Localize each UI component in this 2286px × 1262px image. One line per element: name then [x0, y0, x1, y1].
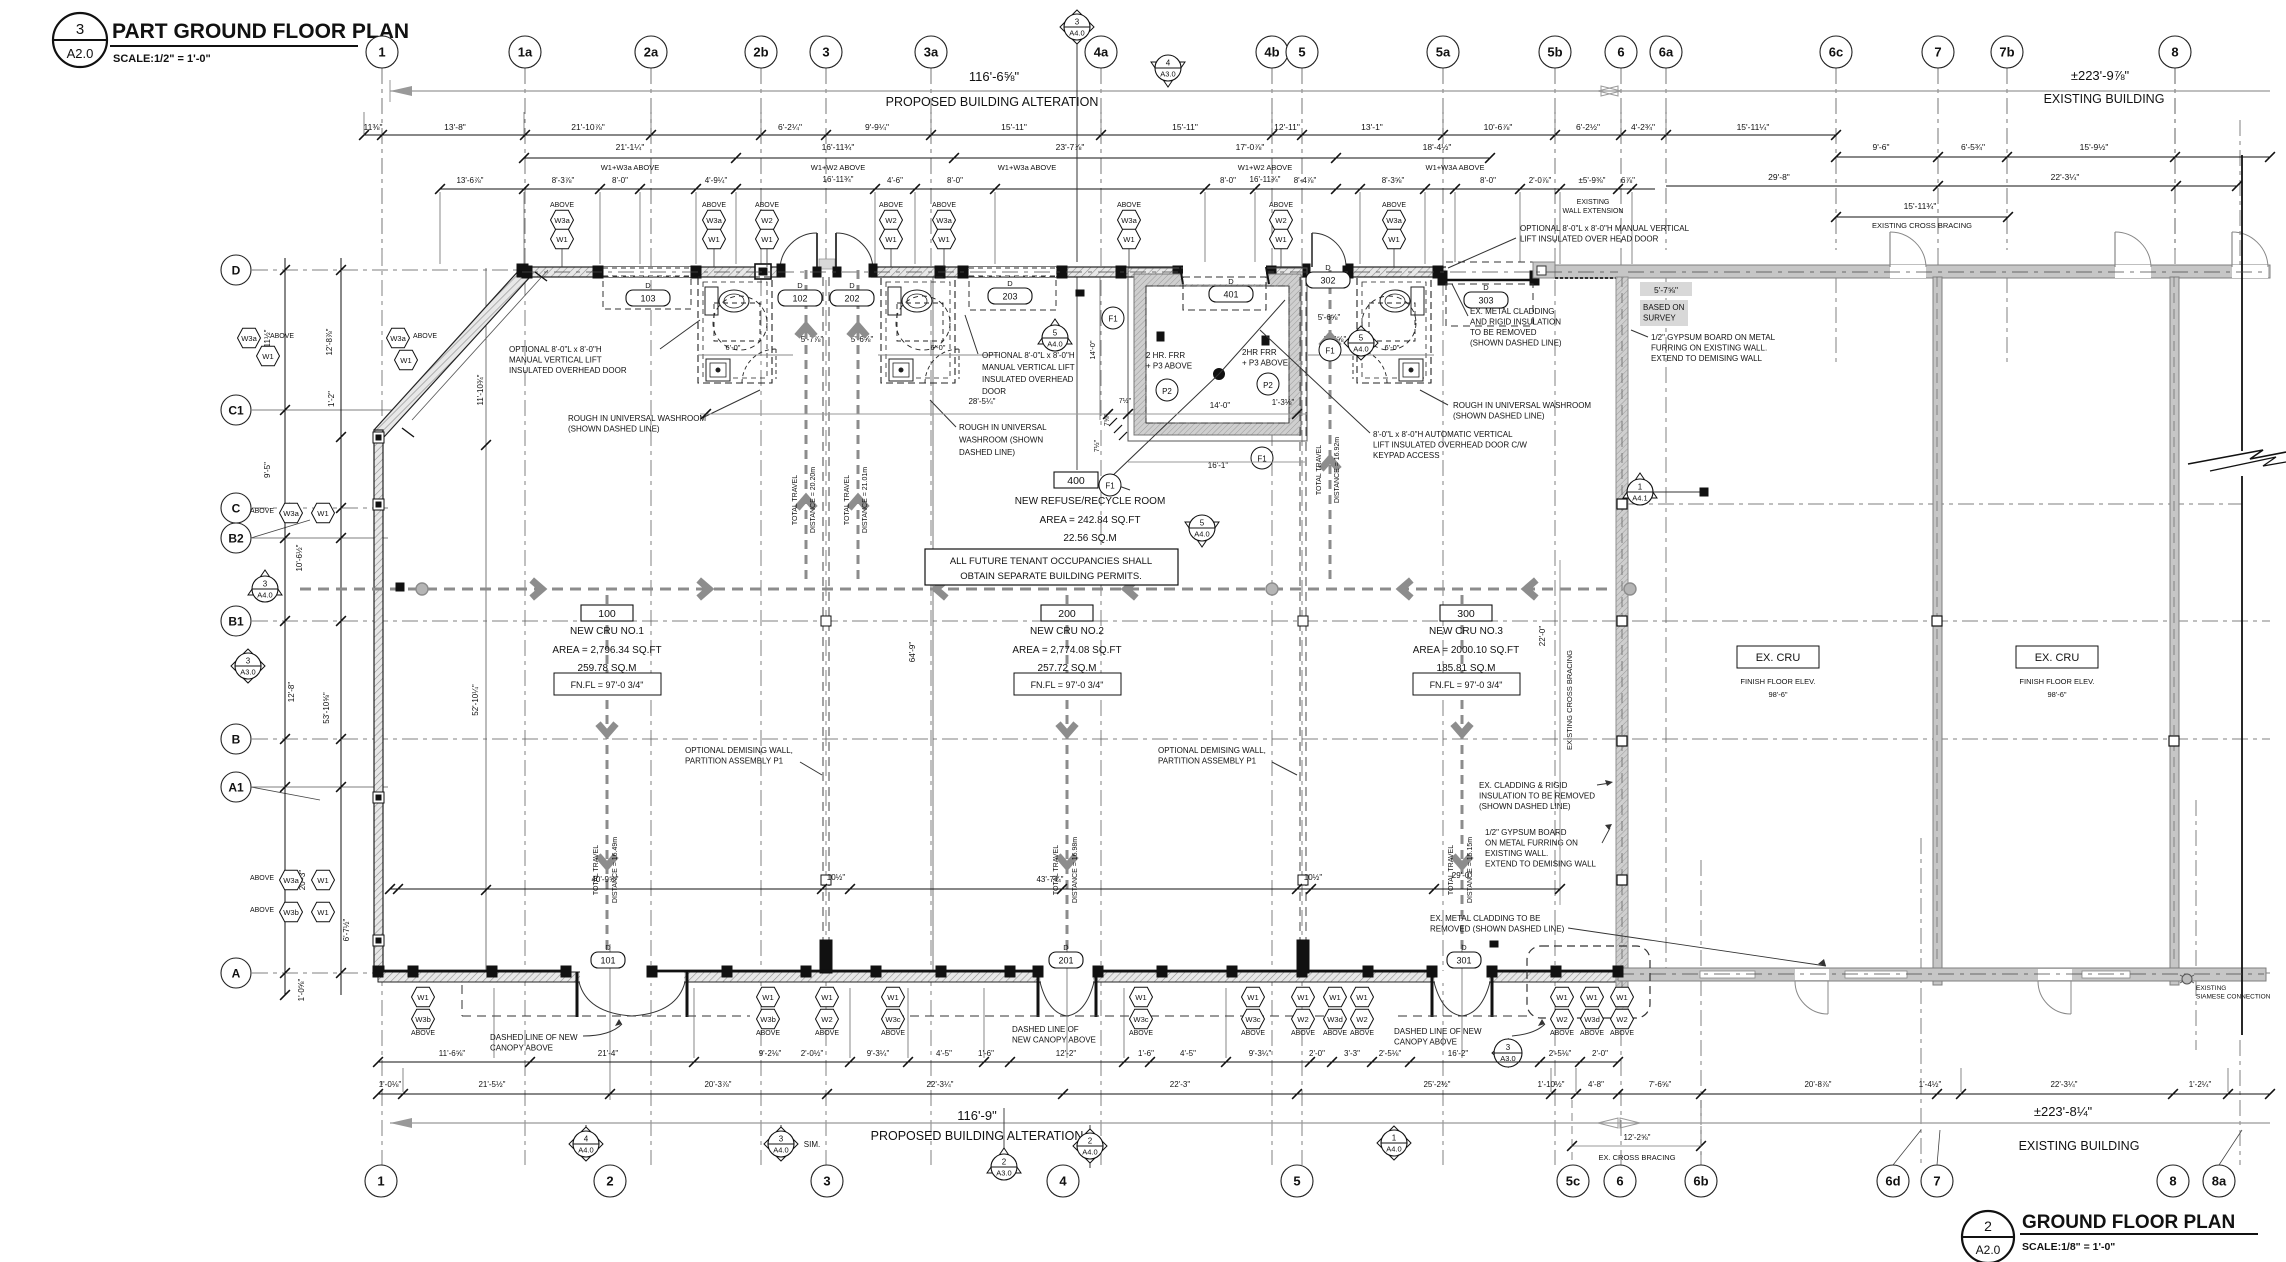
bottom hexagon tag stacks [412, 987, 435, 1006]
svg-text:ABOVE: ABOVE [413, 333, 437, 340]
svg-text:W1: W1 [887, 993, 898, 1002]
svg-text:1'-2¼": 1'-2¼" [2189, 1080, 2212, 1089]
room label 100 NEW CRU NO.1 [581, 605, 633, 621]
svg-text:W1: W1 [708, 235, 719, 244]
svg-text:1'-3⅛": 1'-3⅛" [1272, 398, 1295, 407]
svg-text:22.56 SQ.M: 22.56 SQ.M [1063, 533, 1116, 544]
svg-text:A4.0: A4.0 [773, 1146, 788, 1155]
svg-text:OPTIONAL 8'-0"L x 8'-0"H: OPTIONAL 8'-0"L x 8'-0"H [982, 351, 1075, 360]
svg-text:TOTAL TRAVEL: TOTAL TRAVEL [593, 845, 600, 895]
universal washroom CRU1 (dashed rough-in) [698, 277, 772, 383]
svg-text:6: 6 [1616, 1174, 1623, 1189]
bottom storefront door gaps [580, 971, 684, 983]
svg-text:3: 3 [822, 45, 829, 60]
svg-text:29'-8": 29'-8" [1768, 172, 1790, 182]
svg-text:2'-0½": 2'-0½" [801, 1049, 824, 1058]
svg-text:SURVEY: SURVEY [1643, 314, 1676, 323]
svg-text:A3.0: A3.0 [1160, 70, 1175, 79]
horizontal grid lines D C1 C B2 B1 B A1 A [252, 269, 2270, 271]
svg-text:NEW CRU NO.3: NEW CRU NO.3 [1429, 626, 1503, 637]
door tag 102 [778, 290, 822, 306]
demising wall intersection squares [821, 875, 831, 885]
svg-text:W2: W2 [761, 216, 772, 225]
svg-text:116'-9": 116'-9" [957, 1108, 997, 1123]
svg-text:ABOVE: ABOVE [702, 202, 726, 209]
svg-text:NEW CANOPY ABOVE: NEW CANOPY ABOVE [1012, 1036, 1096, 1045]
svg-text:AREA = 2,796.34 SQ.FT: AREA = 2,796.34 SQ.FT [552, 645, 661, 656]
grid D centerline over wall bands [522, 271, 1618, 273]
svg-text:W1+W3A ABOVE: W1+W3A ABOVE [1426, 163, 1485, 172]
svg-text:203: 203 [1002, 292, 1017, 302]
entry door 301 (double leaves + arcs) [1431, 972, 1434, 1017]
svg-text:OPTIONAL 8'-0"L x 8'-0"H: OPTIONAL 8'-0"L x 8'-0"H [509, 345, 602, 354]
svg-text:W2: W2 [1356, 1015, 1367, 1024]
svg-text:6'-5¾": 6'-5¾" [1961, 142, 1985, 152]
svg-text:(SHOWN DASHED LINE): (SHOWN DASHED LINE) [568, 425, 660, 434]
bottom grid bubbles [365, 1165, 397, 1197]
svg-text:ABOVE: ABOVE [250, 508, 274, 515]
svg-text:DISTANCE = 16.92m: DISTANCE = 16.92m [1334, 437, 1341, 503]
chamfer diagonal dimension 11'-10 3/4 [412, 270, 548, 420]
svg-text:5b: 5b [1547, 45, 1562, 60]
svg-text:2'-0": 2'-0" [1592, 1049, 1608, 1058]
svg-text:7½": 7½" [1093, 439, 1101, 452]
svg-text:4'-8": 4'-8" [1588, 1080, 1604, 1089]
overall top dimension line 116'-6 5/8 PROPOSED BUILDING ALTERATION [390, 90, 2270, 92]
svg-text:A3.0: A3.0 [996, 1169, 1011, 1178]
svg-text:SCALE:1/8" = 1'-0": SCALE:1/8" = 1'-0" [2022, 1241, 2115, 1253]
svg-text:EX. CROSS BRACING: EX. CROSS BRACING [1598, 1153, 1675, 1162]
svg-text:W1: W1 [417, 993, 428, 1002]
svg-text:22'-0": 22'-0" [1538, 626, 1547, 647]
svg-text:DASHED LINE OF NEW: DASHED LINE OF NEW [1394, 1027, 1482, 1036]
svg-text:SCALE:1/2" = 1'-0": SCALE:1/2" = 1'-0" [113, 53, 211, 65]
svg-text:14'-0": 14'-0" [1210, 401, 1231, 410]
svg-text:6'-0": 6'-0" [931, 343, 946, 352]
svg-text:EXTEND TO DEMISING WALL: EXTEND TO DEMISING WALL [1485, 860, 1597, 869]
svg-text:A4.0: A4.0 [257, 591, 272, 600]
svg-text:W1: W1 [317, 908, 328, 917]
svg-text:15'-11¼": 15'-11¼" [1737, 122, 1770, 132]
vertical grid centerlines [381, 68, 383, 250]
svg-text:DASHED LINE): DASHED LINE) [959, 448, 1015, 457]
svg-text:OBTAIN SEPARATE BUILDING PERMI: OBTAIN SEPARATE BUILDING PERMITS. [960, 571, 1142, 582]
vestibule entry doors D/102 D/202 at grid 3 [781, 266, 871, 278]
svg-text:D: D [797, 281, 803, 290]
svg-text:EXISTING CROSS BRACING: EXISTING CROSS BRACING [1872, 221, 1972, 230]
door tag 103 [626, 290, 670, 306]
svg-text:F1: F1 [1325, 347, 1335, 356]
EX. CRU label left [1737, 646, 1819, 668]
svg-text:2'-0⅞": 2'-0⅞" [1529, 176, 1552, 185]
horizontal exit path line at y=589 [300, 588, 1610, 591]
travel line CRU3 upper [1329, 270, 1332, 585]
svg-text:C: C [232, 501, 241, 515]
existing top wall grey band grid 6 to 8a [1555, 265, 2270, 278]
washroom dim 6'-0 CRU1 [698, 354, 793, 356]
svg-text:W3b: W3b [760, 1015, 776, 1024]
svg-text:W3a: W3a [283, 509, 299, 518]
svg-text:3: 3 [76, 21, 84, 38]
svg-text:W1: W1 [1616, 993, 1627, 1002]
svg-text:W3a: W3a [936, 216, 952, 225]
door tag 101 [591, 952, 625, 968]
travel line CRU1 lower [606, 595, 609, 958]
svg-text:5'-6⅝": 5'-6⅝" [1318, 313, 1341, 322]
svg-text:22'-3¼": 22'-3¼" [2050, 1080, 2077, 1089]
door tag 302 [1306, 272, 1350, 288]
svg-text:(SHOWN DASHED LINE): (SHOWN DASHED LINE) [1470, 339, 1562, 348]
svg-text:D: D [1228, 277, 1234, 286]
svg-text:5c: 5c [1566, 1174, 1580, 1189]
svg-text:40'-9⅝": 40'-9⅝" [591, 875, 618, 884]
svg-text:12'-8⅞": 12'-8⅞" [325, 328, 334, 355]
svg-text:12'-2⅝": 12'-2⅝" [1623, 1133, 1650, 1142]
svg-text:21'-10⅞": 21'-10⅞" [571, 122, 604, 132]
svg-text:W3a: W3a [390, 334, 406, 343]
svg-text:W3d: W3d [1584, 1015, 1600, 1024]
svg-text:8'-3⅝": 8'-3⅝" [1382, 176, 1405, 185]
svg-text:100: 100 [598, 608, 616, 620]
svg-text:A3.0: A3.0 [240, 668, 255, 677]
svg-text:W2: W2 [885, 216, 896, 225]
bottom dim extension lines [493, 988, 495, 1058]
svg-text:A4.1: A4.1 [1632, 494, 1647, 503]
svg-text:W1: W1 [938, 235, 949, 244]
svg-text:10'-6⅞": 10'-6⅞" [1484, 122, 1513, 132]
universal washroom CRU3 (dashed rough-in) [1357, 277, 1431, 383]
svg-text:W2: W2 [1616, 1015, 1627, 1024]
svg-text:28'-5¼": 28'-5¼" [968, 397, 995, 406]
svg-text:DASHED LINE OF: DASHED LINE OF [1012, 1025, 1079, 1034]
svg-text:ABOVE: ABOVE [250, 875, 274, 882]
travel line CRU3 lower [1461, 595, 1464, 958]
svg-text:22'-3": 22'-3" [1170, 1080, 1191, 1089]
svg-text:2: 2 [1088, 1137, 1093, 1146]
overhead door opening D/103 dashed [603, 267, 691, 277]
svg-text:20'-3⅞": 20'-3⅞" [704, 1080, 731, 1089]
svg-text:MANUAL VERTICAL LIFT: MANUAL VERTICAL LIFT [509, 356, 602, 365]
svg-text:ABOVE: ABOVE [550, 202, 574, 209]
svg-text:CANOPY ABOVE: CANOPY ABOVE [490, 1044, 553, 1053]
svg-text:2'-5⅛": 2'-5⅛" [1379, 1049, 1402, 1058]
svg-text:6⅞": 6⅞" [1621, 176, 1635, 185]
svg-text:43'-7¾": 43'-7¾" [1036, 875, 1063, 884]
svg-text:W3a: W3a [283, 876, 299, 885]
svg-text:(SHOWN DASHED LINE): (SHOWN DASHED LINE) [1453, 412, 1545, 421]
svg-text:8'-0": 8'-0" [612, 176, 628, 185]
existing siamese connection symbol [2180, 974, 2194, 984]
svg-text:W1+W2 ABOVE: W1+W2 ABOVE [1238, 163, 1292, 172]
svg-text:INSULATION TO BE REMOVED: INSULATION TO BE REMOVED [1479, 792, 1595, 801]
svg-text:ABOVE: ABOVE [270, 333, 294, 340]
svg-text:EX. CRU: EX. CRU [2035, 652, 2080, 664]
refuse room door opening 401 [1183, 262, 1266, 284]
svg-text:DISTANCE = 16.49m: DISTANCE = 16.49m [612, 837, 619, 903]
east match line with break symbol [2241, 155, 2243, 451]
svg-text:EX. METAL CLADDING: EX. METAL CLADDING [1470, 307, 1554, 316]
svg-text:20'-8⅞": 20'-8⅞" [1804, 1080, 1831, 1089]
all future tenant occupancies box [925, 549, 1178, 585]
svg-text:W3a: W3a [554, 216, 570, 225]
washroom dim CRU3 [1308, 354, 1434, 356]
svg-text:W1: W1 [1388, 235, 1399, 244]
svg-text:16'-11¾": 16'-11¾" [823, 175, 854, 184]
svg-text:AREA = 2000.10 SQ.FT: AREA = 2000.10 SQ.FT [1413, 645, 1519, 656]
svg-text:INSULATED OVERHEAD DOOR: INSULATED OVERHEAD DOOR [509, 366, 627, 375]
svg-text:GROUND FLOOR PLAN: GROUND FLOOR PLAN [2022, 1212, 2235, 1233]
svg-text:2: 2 [606, 1174, 613, 1189]
svg-text:1'-4½": 1'-4½" [1919, 1080, 1942, 1089]
optional demising wall grid 3 [822, 277, 824, 958]
left grid bubbles D C1 C B2 B1 B A1 A [221, 255, 251, 285]
svg-text:EXTEND TO DEMISING WALL: EXTEND TO DEMISING WALL [1651, 354, 1763, 363]
svg-text:PROPOSED BUILDING ALTERATION: PROPOSED BUILDING ALTERATION [886, 95, 1099, 109]
svg-text:257.72 SQ.M: 257.72 SQ.M [1038, 663, 1097, 674]
svg-text:8'-0"L x 8'-0"H AUTOMATIC VERT: 8'-0"L x 8'-0"H AUTOMATIC VERTICAL [1373, 430, 1513, 439]
svg-text:TOTAL TRAVEL: TOTAL TRAVEL [1053, 845, 1060, 895]
svg-text:25'-2½": 25'-2½" [1423, 1080, 1450, 1089]
svg-text:9'-5": 9'-5" [263, 462, 272, 478]
svg-text:11⅜": 11⅜" [364, 122, 383, 132]
room label 200 NEW CRU NO.2 [1041, 605, 1093, 621]
svg-text:AREA = 2,774.08 SQ.FT: AREA = 2,774.08 SQ.FT [1012, 645, 1121, 656]
svg-text:W1: W1 [821, 993, 832, 1002]
svg-text:64'-9": 64'-9" [908, 642, 917, 663]
svg-text:1/2" GYPSUM BOARD ON METAL: 1/2" GYPSUM BOARD ON METAL [1651, 333, 1776, 342]
svg-text:116'-6⅝": 116'-6⅝" [969, 69, 1020, 84]
svg-text:7: 7 [1934, 45, 1941, 60]
svg-text:PART GROUND FLOOR PLAN: PART GROUND FLOOR PLAN [112, 20, 409, 43]
optional demising wall grid 5 [1299, 277, 1301, 958]
svg-text:15'-11¾": 15'-11¾" [1904, 201, 1937, 211]
refuse/recycle room 400 walls [1128, 268, 1307, 441]
refuse room blocking marks [1157, 332, 1164, 341]
svg-text:4'-2¾": 4'-2¾" [1631, 122, 1655, 132]
svg-text:8'-3⅞": 8'-3⅞" [552, 176, 575, 185]
svg-text:3: 3 [263, 580, 268, 589]
svg-text:W1: W1 [400, 356, 411, 365]
svg-text:NEW CRU NO.1: NEW CRU NO.1 [570, 626, 644, 637]
overall line open arrows at grid 6 [1601, 86, 1621, 96]
door tag 401 [1209, 286, 1253, 302]
section marker 3/A4.0 top [1076, 14, 1078, 262]
svg-text:W3a: W3a [1121, 216, 1137, 225]
svg-text:6d: 6d [1885, 1174, 1900, 1189]
svg-text:W1: W1 [1329, 993, 1340, 1002]
bottom storefront black segments [378, 970, 566, 973]
svg-text:W2: W2 [821, 1015, 832, 1024]
svg-text:W1: W1 [1135, 993, 1146, 1002]
svg-text:29'-0": 29'-0" [1452, 871, 1473, 880]
svg-text:52'-10¼": 52'-10¼" [471, 684, 480, 716]
svg-text:DISTANCE = 20.20m: DISTANCE = 20.20m [810, 467, 817, 533]
svg-text:EXISTING BUILDING: EXISTING BUILDING [2019, 1139, 2140, 1153]
svg-text:D: D [1063, 943, 1069, 952]
svg-text:202: 202 [844, 294, 859, 304]
svg-text:SIAMESE CONNECTION: SIAMESE CONNECTION [2196, 994, 2271, 1001]
svg-text:EX. CRU: EX. CRU [1756, 652, 1801, 664]
travel line washroom pair CRU1/2 [805, 270, 808, 585]
svg-text:EXISTING: EXISTING [2196, 985, 2226, 992]
top wall chamfer corner [374, 267, 530, 437]
svg-text:10½": 10½" [1304, 873, 1323, 882]
svg-text:9'-3¼": 9'-3¼" [1249, 1049, 1272, 1058]
existing bottom wall grey band [1618, 968, 2266, 981]
svg-text:5: 5 [1200, 519, 1205, 528]
svg-text:98'-6": 98'-6" [1768, 690, 1787, 699]
svg-text:ABOVE: ABOVE [1117, 202, 1141, 209]
svg-text:302: 302 [1320, 276, 1335, 286]
svg-text:+ P3 ABOVE: + P3 ABOVE [1146, 362, 1192, 371]
left margin vertical dimension lines [284, 258, 286, 995]
refuse room leader dot and diagonal [1214, 369, 1225, 380]
svg-text:22'-3¼": 22'-3¼" [2051, 172, 2080, 182]
svg-text:A4.0: A4.0 [1047, 340, 1062, 349]
svg-text:12'-8": 12'-8" [287, 682, 296, 703]
svg-text:A4.0: A4.0 [1386, 1145, 1401, 1154]
svg-text:W1: W1 [1356, 993, 1367, 1002]
svg-text:A: A [232, 966, 241, 980]
svg-text:ABOVE: ABOVE [1291, 1030, 1315, 1037]
svg-text:EX. METAL CLADDING TO BE: EX. METAL CLADDING TO BE [1430, 914, 1540, 923]
svg-text:W1: W1 [1297, 993, 1308, 1002]
svg-text:6b: 6b [1693, 1174, 1708, 1189]
travel line CRU2 lower [1066, 595, 1069, 958]
bottom dimension tier 2 [378, 1093, 2270, 1095]
svg-text:401: 401 [1223, 290, 1238, 300]
svg-text:ABOVE: ABOVE [1550, 1030, 1574, 1037]
drawing title 3/A2.0 PART GROUND FLOOR PLAN [53, 13, 107, 67]
svg-text:2a: 2a [644, 45, 659, 60]
svg-text:2: 2 [1002, 1158, 1007, 1167]
svg-text:18'-4½": 18'-4½" [1423, 142, 1452, 152]
svg-text:5: 5 [1293, 1174, 1300, 1189]
svg-text:EXISTING CROSS BRACING: EXISTING CROSS BRACING [1565, 650, 1574, 750]
svg-text:A4.0: A4.0 [1069, 29, 1084, 38]
svg-text:2: 2 [1984, 1218, 1992, 1234]
svg-text:9'-3¼": 9'-3¼" [867, 1049, 890, 1058]
svg-text:3'-3": 3'-3" [1344, 1049, 1360, 1058]
svg-text:LIFT INSULATED OVER HEAD DOOR: LIFT INSULATED OVER HEAD DOOR [1520, 235, 1659, 244]
ex cross bracing bottom dim [1572, 1145, 1701, 1147]
universal washroom CRU2 (dashed rough-in) [881, 277, 955, 383]
svg-text:ALL FUTURE TENANT OCCUPANCIES: ALL FUTURE TENANT OCCUPANCIES SHALL [950, 556, 1152, 567]
svg-text:WALL EXTENSION: WALL EXTENSION [1563, 208, 1624, 215]
svg-text:7: 7 [1933, 1174, 1940, 1189]
svg-text:W1: W1 [885, 235, 896, 244]
svg-text:SIM.: SIM. [804, 1140, 820, 1149]
svg-text:±223'-9⅞": ±223'-9⅞" [2071, 68, 2130, 83]
svg-text:4'-6": 4'-6" [887, 176, 903, 185]
svg-text:4: 4 [1059, 1174, 1067, 1189]
svg-text:W1: W1 [556, 235, 567, 244]
svg-text:D: D [1483, 283, 1489, 292]
svg-text:7½": 7½" [1119, 397, 1132, 405]
svg-text:10½": 10½" [827, 873, 846, 882]
svg-text:3: 3 [779, 1135, 784, 1144]
top dimension right tier 9'-6 / 6'-5 3/4 / 15'-9 1/2 [1836, 156, 2270, 158]
svg-text:185.81 SQ.M: 185.81 SQ.M [1437, 663, 1496, 674]
overhead door opening D/203 dashed [969, 267, 1056, 277]
svg-text:ABOVE: ABOVE [1580, 1030, 1604, 1037]
svg-text:OPTIONAL 8'-0"L x 8'-0"H MANUA: OPTIONAL 8'-0"L x 8'-0"H MANUAL VERTICAL [1520, 224, 1690, 233]
svg-text:8'-0": 8'-0" [1480, 176, 1496, 185]
svg-text:5'-7⅝": 5'-7⅝" [1654, 285, 1678, 295]
svg-text:DISTANCE = 16.98m: DISTANCE = 16.98m [1072, 837, 1079, 903]
svg-text:4: 4 [1166, 59, 1171, 68]
svg-text:CANOPY ABOVE: CANOPY ABOVE [1394, 1038, 1457, 1047]
svg-text:6'-2½": 6'-2½" [1576, 122, 1600, 132]
svg-text:TOTAL TRAVEL: TOTAL TRAVEL [1316, 445, 1323, 495]
svg-text:D: D [645, 281, 651, 290]
svg-text:4b: 4b [1264, 45, 1279, 60]
svg-text:W1: W1 [762, 993, 773, 1002]
svg-text:13'-1": 13'-1" [1361, 122, 1383, 132]
F1 circles [1102, 307, 1124, 329]
svg-text:8'-0": 8'-0" [947, 176, 963, 185]
svg-text:1'-2": 1'-2" [327, 391, 336, 407]
svg-text:EXISTING: EXISTING [1577, 199, 1610, 206]
svg-text:NEW CRU NO.2: NEW CRU NO.2 [1030, 626, 1104, 637]
svg-text:FURRING ON EXISTING WALL.: FURRING ON EXISTING WALL. [1651, 344, 1767, 353]
svg-text:TO BE REMOVED: TO BE REMOVED [1470, 328, 1537, 337]
svg-text:7'-6⅝": 7'-6⅝" [1649, 1080, 1672, 1089]
svg-text:ABOVE: ABOVE [1241, 1030, 1265, 1037]
svg-text:13'-8": 13'-8" [444, 122, 466, 132]
svg-text:8'-4⅞": 8'-4⅞" [1294, 176, 1317, 185]
svg-text:2'-0": 2'-0" [1309, 1049, 1325, 1058]
svg-text:TOTAL TRAVEL: TOTAL TRAVEL [1448, 845, 1455, 895]
svg-text:B1: B1 [228, 614, 244, 628]
svg-text:C1: C1 [228, 403, 244, 417]
svg-text:W3c: W3c [1245, 1015, 1260, 1024]
svg-text:A2.0: A2.0 [1976, 1243, 2001, 1257]
svg-text:PARTITION ASSEMBLY P1: PARTITION ASSEMBLY P1 [685, 757, 784, 766]
svg-text:9'-6": 9'-6" [1873, 142, 1890, 152]
svg-text:W1+W2 ABOVE: W1+W2 ABOVE [811, 163, 865, 172]
svg-text:F1: F1 [1108, 315, 1118, 324]
svg-text:ROUGH IN UNIVERSAL WASHROOM: ROUGH IN UNIVERSAL WASHROOM [1453, 401, 1591, 410]
west wall grid 1 [374, 430, 383, 973]
svg-text:9'-9¼": 9'-9¼" [865, 122, 889, 132]
svg-text:PROPOSED BUILDING ALTERATION: PROPOSED BUILDING ALTERATION [871, 1129, 1084, 1143]
svg-text:D: D [232, 263, 241, 277]
svg-text:FINISH FLOOR ELEV.: FINISH FLOOR ELEV. [1740, 677, 1815, 686]
existing wall extension grey stub [1533, 262, 1555, 278]
svg-text:2'-5⅛": 2'-5⅛" [1549, 1049, 1572, 1058]
existing cross bracing dim top right [1836, 216, 2008, 218]
svg-text:1'-0⅛": 1'-0⅛" [379, 1080, 402, 1089]
entry door 201 (double leaves + arcs) [1037, 972, 1040, 1017]
svg-text:DASHED LINE OF NEW: DASHED LINE OF NEW [490, 1033, 578, 1042]
svg-text:ROUGH IN UNIVERSAL WASHROOM: ROUGH IN UNIVERSAL WASHROOM [568, 414, 706, 423]
svg-text:11'-6⅝": 11'-6⅝" [439, 1049, 466, 1058]
svg-text:1'-6": 1'-6" [978, 1049, 994, 1058]
top dimension line tier 3 [440, 188, 1655, 190]
bottom dimension tier 1 [378, 1061, 1618, 1063]
svg-text:21'-5½": 21'-5½" [478, 1080, 505, 1089]
svg-text:1: 1 [378, 45, 385, 60]
svg-text:1: 1 [377, 1174, 384, 1189]
door tag 202 [830, 290, 874, 306]
svg-text:23'-7⅞": 23'-7⅞" [1056, 142, 1085, 152]
svg-text:KEYPAD ACCESS: KEYPAD ACCESS [1373, 451, 1440, 460]
svg-text:4: 4 [584, 1135, 589, 1144]
svg-text:22'-3¼": 22'-3¼" [926, 1080, 953, 1089]
room label 300 NEW CRU NO.3 [1440, 605, 1492, 621]
svg-text:3: 3 [823, 1174, 830, 1189]
